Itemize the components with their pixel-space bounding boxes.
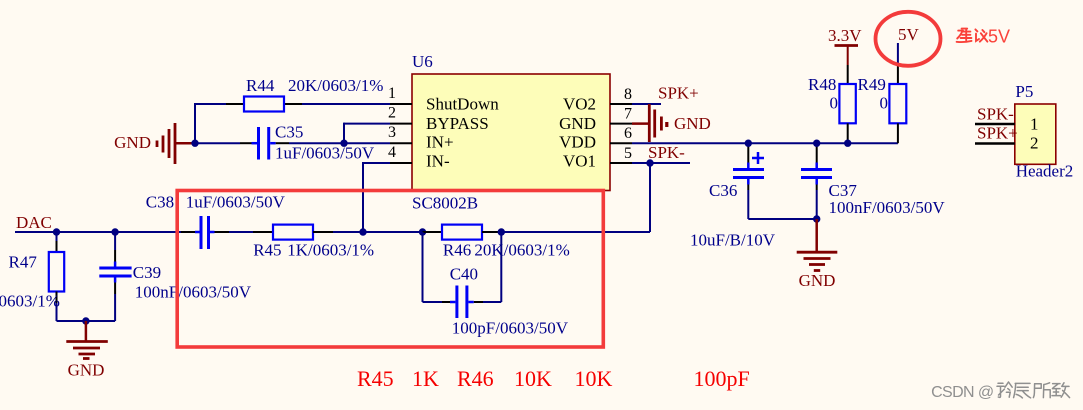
annotation red box [177, 191, 603, 348]
wire P5 pin2 [975, 142, 1015, 145]
svg-text:5V: 5V [898, 25, 920, 44]
svg-text:BYPASS: BYPASS [426, 114, 489, 133]
wire VO1 feedback riser [649, 163, 651, 232]
wire R44 right to pin1 [302, 103, 390, 105]
svg-text:DAC: DAC [16, 213, 52, 232]
svg-text:C38: C38 [146, 193, 174, 212]
node bottom gnd junction [82, 317, 89, 324]
ground GND2 (pin7, pointing right) [632, 104, 711, 142]
svg-text:4: 4 [388, 144, 396, 161]
svg-text:VDD: VDD [559, 133, 596, 152]
svg-text:3.3V: 3.3V [828, 26, 862, 45]
svg-text:100pF: 100pF [694, 366, 750, 391]
svg-text:GND: GND [799, 271, 836, 290]
resistor R44 [226, 76, 383, 112]
wire C36 bottom to C37 [748, 218, 816, 220]
svg-text:1uF/0603/50V: 1uF/0603/50V [186, 193, 286, 212]
node C36 top junction [745, 140, 752, 147]
pin 2 [388, 105, 412, 124]
svg-text:C40: C40 [450, 265, 478, 284]
op-amp U6 [412, 52, 610, 213]
node R48 junction [844, 140, 851, 147]
svg-text:GND: GND [559, 114, 596, 133]
svg-text:SPK-: SPK- [977, 105, 1014, 124]
svg-text:1K/0603/1%: 1K/0603/1% [287, 241, 374, 260]
svg-text:P5: P5 [1015, 82, 1033, 101]
svg-text:IN-: IN- [426, 152, 450, 171]
annotation text 建议5V [957, 29, 988, 42]
wire C35 to pin3 [289, 142, 390, 144]
svg-text:SPK-: SPK- [648, 143, 685, 162]
pin 8 [610, 86, 632, 104]
svg-text:0: 0 [830, 94, 839, 113]
svg-text:C36: C36 [709, 181, 737, 200]
svg-text:SPK+: SPK+ [977, 124, 1018, 143]
svg-text:100nF/0603/50V: 100nF/0603/50V [829, 198, 946, 217]
pin 6 [610, 125, 632, 143]
svg-text:R44: R44 [246, 76, 275, 95]
svg-text:8: 8 [624, 86, 632, 103]
capacitor C39 [99, 232, 251, 321]
svg-text:3: 3 [388, 124, 396, 141]
node DAC junction C39 [111, 228, 118, 235]
svg-text:1K/0603/1%: 1K/0603/1% [0, 292, 60, 311]
svg-text:GND: GND [674, 114, 711, 133]
svg-text:R45: R45 [357, 366, 394, 391]
node DAC junction R47 [53, 228, 60, 235]
svg-text:VO1: VO1 [563, 152, 596, 171]
svg-text:R48: R48 [808, 75, 836, 94]
svg-text:Header2: Header2 [1016, 162, 1074, 181]
wire R44 left riser [195, 103, 226, 143]
capacitor C36 [690, 143, 776, 249]
node GND1 junction [191, 140, 198, 147]
wire SPK+ net [632, 103, 661, 105]
svg-text:6: 6 [624, 125, 632, 142]
ground GND4 (bottom left) [66, 321, 108, 380]
svg-text:CSDN @: CSDN @ [931, 384, 993, 401]
svg-text:10uF/B/10V: 10uF/B/10V [690, 231, 776, 250]
node SPK- junction [646, 159, 653, 166]
svg-text:R47: R47 [9, 253, 38, 272]
svg-text:10K: 10K [514, 366, 552, 391]
capacitor C35 [195, 123, 375, 163]
svg-text:SC8002B: SC8002B [412, 194, 478, 213]
pin 5 [610, 145, 632, 163]
svg-text:100pF/0603/50V: 100pF/0603/50V [452, 319, 569, 338]
annotation red values text [357, 366, 750, 391]
pin 3 [388, 124, 412, 143]
svg-text:C35: C35 [275, 123, 303, 142]
svg-text:10K: 10K [575, 366, 613, 391]
resistor R49 [858, 65, 907, 143]
pin 7 [610, 106, 632, 124]
svg-text:VO2: VO2 [563, 95, 596, 114]
svg-text:GND: GND [68, 361, 105, 380]
svg-text:U6: U6 [412, 52, 433, 71]
svg-text:100nF/0603/50V: 100nF/0603/50V [135, 283, 252, 302]
power 3.3V [828, 26, 862, 65]
svg-text:20K/0603/1%: 20K/0603/1% [474, 241, 569, 260]
capacitor C38 [146, 193, 286, 250]
node pin3 junction [340, 140, 347, 147]
annotation red circle around 5V [876, 12, 941, 66]
node R46 left junction [419, 228, 426, 235]
node R46 right junction [498, 228, 505, 235]
svg-text:2: 2 [388, 105, 396, 122]
wire bottom net DAC run [15, 231, 650, 233]
svg-text:1uF/0603/50V: 1uF/0603/50V [275, 144, 375, 163]
wire pin2 riser [344, 123, 390, 144]
svg-text:5: 5 [624, 145, 632, 162]
svg-text:R46: R46 [443, 241, 471, 260]
capacitor C37 [801, 143, 945, 219]
resistor R46 [423, 225, 570, 260]
svg-text:2: 2 [1030, 134, 1039, 153]
svg-text:IN+: IN+ [426, 133, 454, 152]
capacitor C40 and loop [423, 232, 569, 338]
node R45-R46 junction (pin4 riser) [359, 228, 366, 235]
svg-text:1: 1 [1030, 115, 1039, 134]
svg-text:R45: R45 [253, 241, 281, 260]
svg-text:SPK+: SPK+ [658, 84, 699, 103]
power 5V [898, 25, 920, 65]
wire pin4 riser [363, 162, 390, 232]
watermark CSDN [931, 382, 1070, 401]
svg-text:C39: C39 [133, 263, 161, 282]
node C36/C37 bottom junction [813, 215, 820, 222]
wire bottom gnd bar [57, 320, 116, 322]
wire P5 pin1 [975, 123, 1015, 126]
connector P5 [1015, 82, 1073, 181]
resistor R48 [808, 65, 856, 143]
svg-text:GND: GND [114, 133, 151, 152]
svg-text:ShutDown: ShutDown [426, 95, 499, 114]
svg-text:20K/0603/1%: 20K/0603/1% [288, 76, 383, 95]
resistor R45 [253, 225, 374, 260]
resistor R47 [0, 232, 64, 321]
svg-text:7: 7 [624, 106, 632, 123]
pin 1 [388, 85, 412, 104]
ground GND3 (below C37) [797, 219, 838, 290]
svg-text:0: 0 [880, 94, 889, 113]
svg-text:1: 1 [388, 85, 396, 102]
wire VDD net [632, 142, 898, 144]
svg-text:5V: 5V [988, 26, 1010, 46]
svg-text:R49: R49 [858, 75, 886, 94]
wire SPK- net [632, 162, 690, 164]
ground GND1 (left, pointing left) [114, 123, 195, 164]
pin 4 [388, 144, 412, 163]
node C37 top junction [813, 140, 820, 147]
svg-text:R46: R46 [457, 366, 494, 391]
svg-text:1K: 1K [412, 366, 439, 391]
